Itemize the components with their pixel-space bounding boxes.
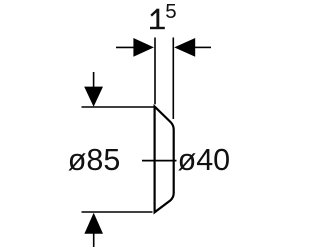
- extension line right of 1.5 dim: [172, 38, 174, 120]
- extension line left of 1.5 dim: [154, 38, 156, 105]
- arrowhead pointing up ø85: [84, 213, 103, 234]
- dim text 1 (custom footed digit): [150, 9, 165, 30]
- svg-text:5: 5: [165, 0, 176, 23]
- arrowhead pointing right at 1.5 dim: [133, 38, 154, 57]
- extension line bottom of ø85 dim: [82, 211, 153, 213]
- cover plate profile outline: [155, 107, 174, 213]
- svg-text:ø40: ø40: [178, 143, 231, 177]
- leader line ø40 dim: [142, 160, 177, 162]
- leader line right arrow 1.5 dim: [195, 46, 211, 48]
- leader line left arrow 1.5 dim: [116, 46, 135, 48]
- extension line top of ø85 dim: [82, 106, 154, 108]
- leader stem below up arrow ø85: [93, 234, 95, 248]
- arrowhead pointing down ø85: [84, 87, 103, 107]
- leader stem above down arrow ø85: [93, 72, 95, 88]
- svg-text:ø85: ø85: [68, 143, 121, 177]
- arrowhead pointing left at 1.5 dim: [174, 38, 195, 57]
